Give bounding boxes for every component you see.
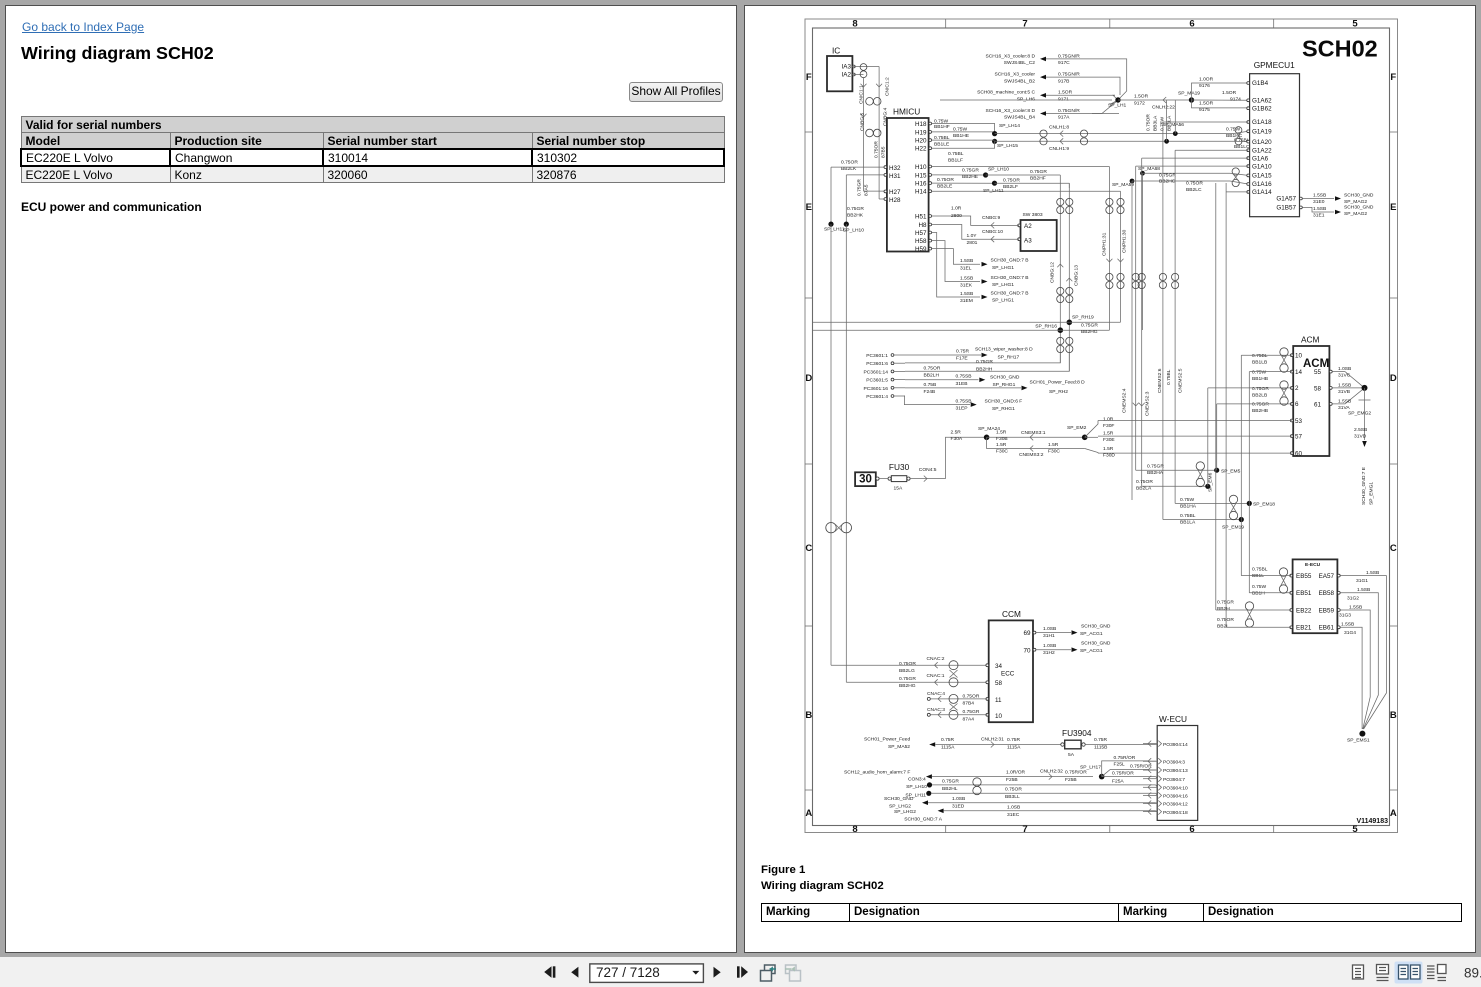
svg-text:31VB: 31VB <box>1338 389 1350 395</box>
svg-text:BB1LA: BB1LA <box>1180 520 1196 526</box>
svg-text:1.0SB: 1.0SB <box>1007 804 1020 810</box>
svg-text:31VD: 31VD <box>1354 434 1367 440</box>
svg-text:SP_LHG1: SP_LHG1 <box>992 298 1014 304</box>
svg-text:1.5OR: 1.5OR <box>1199 101 1214 107</box>
svg-text:SP_LH10: SP_LH10 <box>906 784 927 790</box>
svg-text:11: 11 <box>995 697 1002 704</box>
svg-text:0.75OR: 0.75OR <box>1146 114 1152 131</box>
svg-text:E-ECU: E-ECU <box>1305 562 1321 568</box>
svg-text:F25A: F25A <box>1112 779 1124 785</box>
svg-text:8: 8 <box>852 824 857 835</box>
svg-text:0.75W: 0.75W <box>1160 116 1166 131</box>
svg-text:SP_LH11: SP_LH11 <box>983 188 1004 194</box>
svg-text:SP_LHG2: SP_LHG2 <box>889 804 911 810</box>
svg-text:PO3904:14: PO3904:14 <box>1163 742 1188 748</box>
svg-text:C: C <box>1390 543 1397 554</box>
svg-text:PC3601:16: PC3601:16 <box>864 386 889 392</box>
svg-text:EB55: EB55 <box>1296 573 1312 580</box>
svg-text:1.5R: 1.5R <box>1048 442 1059 448</box>
svg-text:2801: 2801 <box>967 240 978 246</box>
svg-text:PC3601:1: PC3601:1 <box>866 353 888 359</box>
svg-text:SCH30_GND:7 B: SCH30_GND:7 B <box>991 258 1029 264</box>
svg-text:9175: 9175 <box>1199 107 1210 113</box>
svg-text:CNAC:3: CNAC:3 <box>927 707 945 713</box>
svg-text:F25B: F25B <box>1006 777 1018 783</box>
svg-text:G1A20: G1A20 <box>1252 139 1272 146</box>
svg-text:2800: 2800 <box>951 213 962 219</box>
svg-text:0.75GR: 0.75GR <box>963 709 980 715</box>
svg-text:G1A19: G1A19 <box>1252 129 1272 136</box>
svg-text:G1B4: G1B4 <box>1252 80 1269 87</box>
svg-text:H59: H59 <box>915 246 927 253</box>
svg-text:0.75GR: 0.75GR <box>847 206 864 212</box>
svg-text:G1A6: G1A6 <box>1252 155 1269 162</box>
svg-text:F: F <box>1390 72 1396 83</box>
svg-text:0.75GR: 0.75GR <box>1081 323 1098 329</box>
svg-text:F24B: F24B <box>924 389 936 395</box>
svg-text:0.75GR: 0.75GR <box>942 779 959 785</box>
svg-text:1.0R: 1.0R <box>951 206 962 212</box>
svg-text:0.75OR: 0.75OR <box>1005 787 1022 793</box>
svg-text:C: C <box>805 543 812 554</box>
svg-text:31EL: 31EL <box>960 265 972 271</box>
svg-text:917A: 917A <box>1058 115 1070 121</box>
svg-text:9172: 9172 <box>1134 100 1145 106</box>
svg-text:H32: H32 <box>889 165 901 172</box>
svg-text:1.0SB: 1.0SB <box>1338 366 1351 372</box>
svg-text:SCH30_GND: SCH30_GND <box>1344 193 1374 199</box>
svg-text:SCH13_wiper_washer:8 D: SCH13_wiper_washer:8 D <box>975 347 1033 353</box>
svg-text:CNEMS2:3: CNEMS2:3 <box>1144 391 1150 416</box>
svg-text:SP_EM18: SP_EM18 <box>1253 502 1275 508</box>
svg-text:BB2HG: BB2HG <box>899 683 916 689</box>
svg-text:10: 10 <box>1295 353 1303 360</box>
svg-text:0.75GR: 0.75GR <box>899 676 916 682</box>
svg-text:SCH30_GND: SCH30_GND <box>1081 623 1111 629</box>
svg-text:1.0R/OR: 1.0R/OR <box>1006 770 1025 776</box>
svg-text:31VC: 31VC <box>1338 373 1351 379</box>
svg-text:G1A18: G1A18 <box>1252 119 1272 126</box>
svg-text:SWJS4BL_C2: SWJS4BL_C2 <box>1004 60 1036 66</box>
svg-text:FU30: FU30 <box>889 462 910 472</box>
svg-text:CNPH1:30: CNPH1:30 <box>1122 229 1128 253</box>
svg-text:HMICU: HMICU <box>893 107 920 117</box>
svg-text:D: D <box>805 373 812 384</box>
svg-text:1.5R: 1.5R <box>1103 431 1114 437</box>
svg-text:31EB: 31EB <box>956 381 968 387</box>
svg-text:2.5SB: 2.5SB <box>1354 427 1367 433</box>
svg-text:SP_LHG1: SP_LHG1 <box>992 265 1014 271</box>
svg-text:31H2: 31H2 <box>1043 650 1055 656</box>
svg-text:58: 58 <box>1314 386 1322 393</box>
svg-text:69: 69 <box>1023 630 1031 637</box>
svg-text:SP_LH15: SP_LH15 <box>997 143 1018 149</box>
svg-text:EB22: EB22 <box>1296 607 1312 614</box>
svg-text:0.75GN/R: 0.75GN/R <box>1058 108 1080 114</box>
svg-text:SP_ACG1: SP_ACG1 <box>1080 631 1103 637</box>
svg-text:0.75OR: 0.75OR <box>841 160 858 166</box>
svg-text:31G1: 31G1 <box>1356 578 1368 584</box>
svg-text:31ED: 31ED <box>952 804 965 810</box>
svg-text:D: D <box>1390 373 1397 384</box>
svg-text:B: B <box>1390 710 1397 721</box>
svg-text:1.0SB: 1.0SB <box>1043 626 1056 632</box>
svg-text:0.75GR: 0.75GR <box>857 179 863 196</box>
svg-text:BB2LG: BB2LG <box>899 668 915 674</box>
svg-text:CNIC1:1: CNIC1:1 <box>859 85 865 104</box>
svg-text:1.5SB: 1.5SB <box>1313 206 1326 212</box>
svg-text:SP_MA19: SP_MA19 <box>1178 91 1200 97</box>
svg-text:F17E: F17E <box>956 355 968 361</box>
svg-text:SCH30_GND:6 F: SCH30_GND:6 F <box>985 399 1023 405</box>
svg-text:H18: H18 <box>915 121 927 128</box>
svg-text:0.75BL: 0.75BL <box>1166 369 1172 385</box>
svg-text:0.75OR: 0.75OR <box>874 141 880 158</box>
svg-text:917B: 917B <box>1058 78 1069 84</box>
svg-text:SCH02: SCH02 <box>1302 36 1378 62</box>
svg-text:5: 5 <box>1352 824 1358 835</box>
svg-text:FU3904: FU3904 <box>1062 728 1092 738</box>
svg-text:1115A: 1115A <box>941 745 955 751</box>
svg-text:CNEMS3:1: CNEMS3:1 <box>1021 430 1046 436</box>
svg-text:H27: H27 <box>889 189 901 196</box>
svg-text:0.75GN/R: 0.75GN/R <box>1058 72 1080 78</box>
svg-text:PC3601:5: PC3601:5 <box>866 378 888 384</box>
svg-text:87B4: 87B4 <box>963 701 975 707</box>
svg-text:H58: H58 <box>915 238 927 245</box>
svg-text:CCM: CCM <box>1002 609 1021 619</box>
svg-text:1115B: 1115B <box>1094 745 1107 751</box>
svg-text:BB2LF: BB2LF <box>1003 184 1018 190</box>
svg-text:F30F: F30F <box>1103 423 1114 429</box>
svg-text:BB2HF: BB2HF <box>1030 176 1046 182</box>
svg-text:H31: H31 <box>889 173 901 180</box>
svg-text:BB1LE: BB1LE <box>934 141 950 147</box>
svg-text:CON3:4: CON3:4 <box>908 777 926 783</box>
svg-text:BB2LC: BB2LC <box>1186 187 1202 193</box>
svg-text:SCH30_GND:7 A: SCH30_GND:7 A <box>904 817 943 823</box>
svg-text:8: 8 <box>852 19 857 30</box>
svg-text:0.75W: 0.75W <box>1226 127 1241 133</box>
svg-text:SP_LH1: SP_LH1 <box>1108 103 1126 109</box>
svg-text:727 / 7128: 727 / 7128 <box>596 965 660 980</box>
svg-text:BB3LL: BB3LL <box>1005 794 1020 800</box>
svg-text:SW 3803: SW 3803 <box>1023 212 1043 218</box>
svg-text:BB1LA: BB1LA <box>1167 115 1173 131</box>
svg-text:SCH30_GND: SCH30_GND <box>1344 205 1374 211</box>
svg-text:CNLH1:9: CNLH1:9 <box>1049 146 1069 152</box>
svg-text:0.75B: 0.75B <box>924 382 937 388</box>
svg-text:SCH30_GND:7 E: SCH30_GND:7 E <box>1361 466 1367 505</box>
svg-text:0.75SB: 0.75SB <box>956 399 972 405</box>
svg-text:9174: 9174 <box>1230 97 1241 103</box>
svg-text:SP_RH17: SP_RH17 <box>998 354 1020 360</box>
svg-text:0.75R: 0.75R <box>1007 737 1021 743</box>
svg-text:CNAC:2: CNAC:2 <box>927 656 945 662</box>
svg-text:EB51: EB51 <box>1296 590 1312 597</box>
svg-text:0.75BL: 0.75BL <box>934 135 950 141</box>
svg-text:SP_EMS1: SP_EMS1 <box>1347 738 1370 744</box>
svg-text:1.5OR: 1.5OR <box>1134 94 1149 100</box>
svg-text:CNLH1:8: CNLH1:8 <box>1049 125 1069 131</box>
svg-text:1.5SB: 1.5SB <box>1338 382 1351 388</box>
svg-text:2: 2 <box>1295 385 1299 392</box>
svg-text:34: 34 <box>995 663 1003 670</box>
svg-text:SP_LHG2: SP_LHG2 <box>894 809 916 815</box>
svg-text:SP_MAG2: SP_MAG2 <box>1344 199 1367 205</box>
svg-text:7: 7 <box>1022 824 1027 835</box>
svg-text:PO3904:13: PO3904:13 <box>1163 768 1188 774</box>
svg-text:7: 7 <box>1022 19 1027 30</box>
svg-text:SP_RH19: SP_RH19 <box>1072 315 1094 321</box>
svg-text:CNLH2:31: CNLH2:31 <box>981 737 1004 743</box>
svg-text:5A: 5A <box>1068 752 1075 758</box>
svg-text:A: A <box>805 808 812 819</box>
svg-text:0.75OR: 0.75OR <box>1186 181 1203 187</box>
svg-text:EB61: EB61 <box>1319 625 1335 632</box>
svg-text:BB2HL: BB2HL <box>942 786 958 792</box>
svg-text:BB2HK: BB2HK <box>847 213 864 219</box>
svg-text:1.0SB: 1.0SB <box>952 796 965 802</box>
svg-text:H15: H15 <box>915 172 927 179</box>
svg-text:SP_RH2: SP_RH2 <box>1049 389 1068 395</box>
svg-text:H51: H51 <box>915 213 927 220</box>
svg-text:SP_RHG1: SP_RHG1 <box>993 382 1016 388</box>
svg-text:G1A14: G1A14 <box>1252 189 1272 196</box>
svg-text:SCH08_machine_cont:5 C: SCH08_machine_cont:5 C <box>977 90 1035 96</box>
svg-text:SP_EM6: SP_EM6 <box>1208 472 1214 492</box>
svg-text:BB1HE: BB1HE <box>953 133 970 139</box>
svg-text:CNEMS2:6: CNEMS2:6 <box>1157 368 1163 393</box>
svg-text:1.5SB: 1.5SB <box>960 275 973 281</box>
svg-text:0.75W: 0.75W <box>934 118 949 124</box>
svg-text:SCH16_X3_cooler:8 D: SCH16_X3_cooler:8 D <box>986 108 1036 114</box>
svg-text:GPMECU1: GPMECU1 <box>1254 60 1295 70</box>
svg-text:14: 14 <box>1295 369 1303 376</box>
svg-text:BB2HG: BB2HG <box>1081 329 1098 335</box>
svg-text:H28: H28 <box>889 197 901 204</box>
svg-text:0.75BL: 0.75BL <box>1252 353 1268 359</box>
svg-text:10: 10 <box>995 713 1003 720</box>
svg-text:PO3904:3: PO3904:3 <box>1163 759 1185 765</box>
svg-text:BB2HB: BB2HB <box>1252 408 1268 414</box>
svg-text:SP_LH11: SP_LH11 <box>824 227 845 233</box>
svg-text:H20: H20 <box>915 138 927 145</box>
svg-text:BB1H: BB1H <box>1252 591 1265 597</box>
svg-text:SP_EMG2: SP_EMG2 <box>1348 411 1371 417</box>
svg-text:BB2LB: BB2LB <box>1252 392 1267 398</box>
svg-text:1.0OR: 1.0OR <box>1199 77 1214 83</box>
svg-text:917C: 917C <box>1058 60 1070 66</box>
svg-text:0.75OR: 0.75OR <box>1003 177 1020 183</box>
svg-text:H10: H10 <box>915 164 927 171</box>
svg-text:BB2LE: BB2LE <box>937 183 953 189</box>
svg-text:SP_LH14: SP_LH14 <box>999 123 1020 129</box>
svg-text:30: 30 <box>859 473 872 485</box>
svg-text:G1A15: G1A15 <box>1252 173 1272 180</box>
svg-text:58: 58 <box>995 680 1003 687</box>
svg-text:5: 5 <box>1352 19 1358 30</box>
svg-text:0.75R: 0.75R <box>956 349 970 355</box>
svg-text:F30C: F30C <box>996 449 1008 455</box>
svg-text:0.75W: 0.75W <box>1252 584 1267 590</box>
svg-text:0.75BL: 0.75BL <box>1252 567 1268 573</box>
svg-text:SCH30_GND: SCH30_GND <box>1081 640 1111 646</box>
svg-text:0.75GR: 0.75GR <box>1147 464 1164 470</box>
svg-text:H57: H57 <box>915 230 927 237</box>
svg-text:SP_ACG1: SP_ACG1 <box>1080 648 1103 654</box>
svg-text:F25L: F25L <box>1114 761 1125 767</box>
svg-text:0.75SB: 0.75SB <box>956 374 972 380</box>
svg-text:57: 57 <box>1295 433 1303 440</box>
svg-text:0.75GR: 0.75GR <box>1217 600 1234 606</box>
svg-text:SCH01_Power_Feed:8 D: SCH01_Power_Feed:8 D <box>1030 380 1086 386</box>
svg-text:A3: A3 <box>1024 237 1032 244</box>
svg-text:SWJS4BL_B4: SWJS4BL_B4 <box>1004 115 1035 121</box>
svg-text:SP_MA52: SP_MA52 <box>888 744 910 750</box>
svg-text:G1A16: G1A16 <box>1252 181 1272 188</box>
svg-text:70: 70 <box>1023 647 1031 654</box>
svg-text:V1149183: V1149183 <box>1356 818 1388 825</box>
svg-text:1.5R: 1.5R <box>1103 446 1114 452</box>
svg-text:1.5SB: 1.5SB <box>1313 193 1326 199</box>
svg-text:SP_LH17: SP_LH17 <box>1080 765 1101 771</box>
svg-text:31G3: 31G3 <box>1339 613 1351 619</box>
svg-text:W-ECU: W-ECU <box>1159 714 1187 724</box>
svg-text:CNBG:12: CNBG:12 <box>1050 262 1056 283</box>
svg-text:PC3601:14: PC3601:14 <box>864 369 889 375</box>
svg-text:0.75OR: 0.75OR <box>1217 617 1234 623</box>
svg-text:0.75R/OR: 0.75R/OR <box>1114 755 1136 761</box>
svg-text:53: 53 <box>1295 418 1303 425</box>
svg-text:CNLH2:32: CNLH2:32 <box>1040 769 1063 775</box>
svg-text:SP_LH6: SP_LH6 <box>1017 97 1035 103</box>
svg-text:1.0R: 1.0R <box>1103 417 1114 423</box>
svg-text:CNPH1:31: CNPH1:31 <box>1102 232 1108 256</box>
svg-text:31VA: 31VA <box>1338 405 1350 411</box>
svg-text:1.5SB: 1.5SB <box>960 291 973 297</box>
svg-text:E: E <box>1390 202 1396 213</box>
svg-text:BB2L: BB2L <box>1217 623 1229 629</box>
svg-text:BB2HE: BB2HE <box>962 174 979 180</box>
svg-text:CNBG:5: CNBG:5 <box>860 113 866 131</box>
svg-text:A: A <box>1390 808 1397 819</box>
svg-text:9176: 9176 <box>1199 83 1210 89</box>
svg-text:G1B57: G1B57 <box>1276 205 1296 212</box>
svg-text:BB2HA: BB2HA <box>1147 470 1164 476</box>
svg-text:CNEMS2:4: CNEMS2:4 <box>1122 388 1128 413</box>
svg-text:F: F <box>806 72 812 83</box>
svg-text:0.75OR: 0.75OR <box>899 661 916 667</box>
svg-text:6: 6 <box>1295 401 1299 408</box>
svg-text:SCH16_X3_cooler:8 D: SCH16_X3_cooler:8 D <box>986 53 1036 59</box>
svg-text:CNIC1:2: CNIC1:2 <box>885 77 891 96</box>
svg-text:31EK: 31EK <box>960 283 973 289</box>
svg-text:G1A10: G1A10 <box>1252 163 1272 170</box>
svg-text:0.75OR: 0.75OR <box>963 693 980 699</box>
svg-text:PO3904:16: PO3904:16 <box>1163 794 1188 800</box>
svg-text:BB1L: BB1L <box>1252 573 1264 579</box>
svg-text:IC: IC <box>832 46 840 56</box>
svg-text:EB58: EB58 <box>1319 590 1335 597</box>
svg-text:89.6: 89.6 <box>1464 966 1481 981</box>
svg-text:0.75R/OR: 0.75R/OR <box>1130 764 1152 770</box>
svg-text:0.75GR: 0.75GR <box>1030 169 1047 175</box>
svg-text:0.75R: 0.75R <box>941 737 955 743</box>
svg-text:0.75GN/R: 0.75GN/R <box>1058 53 1080 59</box>
svg-text:31EM: 31EM <box>960 298 973 304</box>
svg-text:SP_EM2: SP_EM2 <box>1067 425 1087 431</box>
svg-text:SP_EMG1: SP_EMG1 <box>1369 482 1375 505</box>
svg-text:CNEMS2:5: CNEMS2:5 <box>1178 368 1184 393</box>
svg-text:0.75OR: 0.75OR <box>937 177 954 183</box>
svg-text:G1B62: G1B62 <box>1252 105 1272 112</box>
svg-text:H16: H16 <box>915 181 927 188</box>
svg-text:1115A: 1115A <box>1007 745 1021 751</box>
svg-text:SCH30_GND: SCH30_GND <box>990 375 1020 381</box>
svg-text:SCH01_Power_Feed: SCH01_Power_Feed <box>864 737 910 743</box>
svg-text:SCH30_GND:7 B: SCH30_GND:7 B <box>991 290 1029 296</box>
svg-text:EB59: EB59 <box>1319 607 1335 614</box>
svg-text:G1A57: G1A57 <box>1276 196 1296 203</box>
svg-text:1.5SB: 1.5SB <box>1338 399 1351 405</box>
svg-text:31G4: 31G4 <box>1344 630 1356 636</box>
svg-text:2.5R: 2.5R <box>951 430 962 436</box>
svg-text:F30E: F30E <box>1103 437 1115 443</box>
svg-text:BB1HB: BB1HB <box>1252 376 1268 382</box>
svg-text:SP_LHG1: SP_LHG1 <box>992 282 1014 288</box>
svg-text:F30C: F30C <box>1048 449 1060 455</box>
svg-text:1.5R: 1.5R <box>996 442 1007 448</box>
svg-text:BB2H: BB2H <box>1217 606 1230 612</box>
svg-text:E: E <box>806 202 812 213</box>
svg-text:0.75R: 0.75R <box>1094 737 1108 743</box>
svg-text:ECC: ECC <box>1001 671 1015 678</box>
svg-text:SCH16_X3_cooler: SCH16_X3_cooler <box>994 72 1035 78</box>
svg-text:CNAC:1: CNAC:1 <box>927 673 945 679</box>
svg-text:CNAC:4: CNAC:4 <box>927 691 945 697</box>
svg-text:61: 61 <box>1314 402 1322 409</box>
svg-text:87A4: 87A4 <box>963 716 975 722</box>
svg-text:BB3LA: BB3LA <box>1153 115 1159 131</box>
svg-text:PO3904:10: PO3904:10 <box>1163 786 1188 792</box>
svg-text:BB1HF: BB1HF <box>934 124 950 130</box>
svg-text:PO3904:12: PO3904:12 <box>1163 802 1188 808</box>
svg-text:CON4:5: CON4:5 <box>919 467 937 473</box>
svg-text:G1A22: G1A22 <box>1252 147 1272 154</box>
svg-text:1.5SB: 1.5SB <box>1341 622 1354 628</box>
svg-text:CNLH2:22: CNLH2:22 <box>1152 105 1175 111</box>
svg-text:31H1: 31H1 <box>1043 633 1055 639</box>
svg-text:F25B: F25B <box>1065 777 1077 783</box>
svg-text:60: 60 <box>1295 450 1303 457</box>
svg-text:0.75W: 0.75W <box>953 127 968 133</box>
svg-text:CNEMS3:2: CNEMS3:2 <box>1019 452 1044 458</box>
svg-text:SP_EM5: SP_EM5 <box>1221 469 1241 475</box>
svg-text:B: B <box>805 710 812 721</box>
svg-text:0.75W: 0.75W <box>1252 369 1267 375</box>
svg-text:BB1LF: BB1LF <box>948 158 963 164</box>
svg-text:0.75OR: 0.75OR <box>1252 386 1269 392</box>
svg-text:0.75GR: 0.75GR <box>1252 402 1269 408</box>
svg-text:31E1: 31E1 <box>1313 213 1325 219</box>
svg-text:0.75GR: 0.75GR <box>976 359 993 365</box>
svg-text:31EP: 31EP <box>956 406 968 412</box>
svg-text:0.75BL: 0.75BL <box>948 151 964 157</box>
svg-text:1.5SB: 1.5SB <box>960 258 973 264</box>
svg-text:1.5OR: 1.5OR <box>1058 90 1073 96</box>
svg-text:1.5R: 1.5R <box>996 430 1007 436</box>
